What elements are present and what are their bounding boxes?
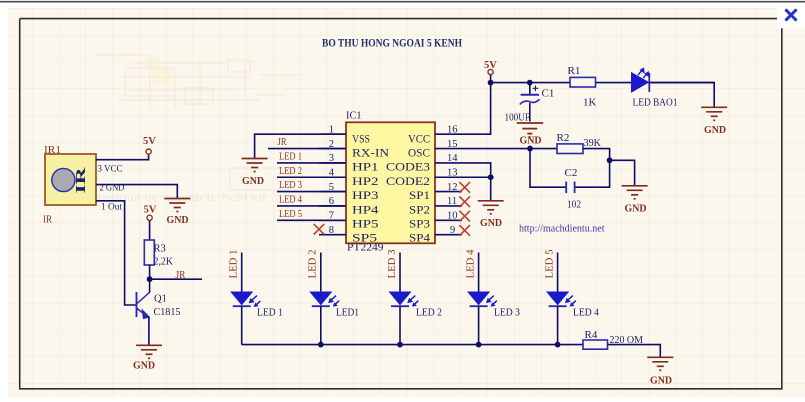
svg-text:LED 2: LED 2: [307, 250, 319, 279]
wire LED4 to bus: [478, 306, 480, 344]
svg-text:LED 3: LED 3: [279, 180, 302, 191]
svg-text:LED 4: LED 4: [464, 249, 476, 278]
wire C1 to ground: [529, 103, 531, 122]
ground (CODE2/3): [478, 201, 504, 214]
wire net LED 5 to pin7: [277, 219, 346, 221]
svg-text:LED 4: LED 4: [573, 307, 599, 319]
svg-text:102: 102: [567, 199, 581, 211]
diode LED 1: [231, 292, 283, 319]
svg-text:RX-IN: RX-IN: [352, 146, 389, 160]
IC pin names left: [352, 131, 389, 244]
svg-text:C1: C1: [542, 88, 555, 100]
capacitor C2 102: [565, 167, 582, 211]
LED BAO1: [632, 69, 678, 109]
svg-text:SP2: SP2: [409, 202, 430, 216]
svg-text:Q1: Q1: [154, 294, 167, 305]
wire LED3 to bus: [399, 306, 401, 344]
wire net LED 1 to pin3: [277, 162, 346, 164]
svg-text:LED 3: LED 3: [494, 307, 520, 319]
svg-text:HP1: HP1: [352, 160, 379, 174]
svg-text:C2: C2: [565, 167, 578, 179]
white notch top-right: [777, 3, 805, 29]
svg-text:10: 10: [447, 211, 458, 222]
wire LED3 column: [399, 253, 401, 293]
svg-text:C1815: C1815: [154, 307, 181, 318]
wire power rail: [491, 82, 715, 84]
wire LED4 column: [478, 253, 480, 293]
svg-text:11: 11: [447, 196, 457, 207]
svg-text:13: 13: [447, 168, 458, 179]
svg-text:3 VCC: 3 VCC: [98, 165, 123, 175]
wire JR stub: [150, 278, 202, 280]
wire net JR to pin2: [268, 148, 346, 150]
resistor R4: [583, 340, 608, 349]
svg-text:1K: 1K: [583, 97, 597, 109]
svg-text:LED 1: LED 1: [228, 250, 240, 279]
wire pin13 CODE2 to gnd branch: [462, 176, 491, 178]
svg-text:GND: GND: [480, 218, 502, 229]
svg-text:16: 16: [447, 125, 458, 136]
wire net LED 2 to pin4: [277, 176, 346, 178]
svg-text:BO THU HONG NGOAI 5 KENH: BO THU HONG NGOAI 5 KENH: [322, 36, 463, 50]
svg-text:12: 12: [447, 182, 458, 193]
ground (LED BAO1): [701, 107, 727, 120]
svg-text:LED 3: LED 3: [386, 249, 398, 278]
svg-text:GND: GND: [520, 136, 542, 147]
top edge line: [0, 1, 805, 3]
svg-text:JR: JR: [176, 270, 186, 281]
svg-text:SP4: SP4: [409, 231, 430, 245]
wire IR pin2 to GND: [96, 185, 177, 198]
svg-text:CODE3: CODE3: [386, 160, 430, 174]
wire LED to ground: [649, 83, 714, 107]
svg-text:IC1: IC1: [346, 110, 362, 122]
wire R2 right to C2 right branch: [575, 149, 610, 188]
svg-text:CODE2: CODE2: [386, 174, 430, 188]
svg-text:scmt: scmt: [330, 9, 343, 17]
resistor R2: [557, 144, 583, 154]
svg-text:LED 1: LED 1: [279, 151, 302, 162]
node CODE2 junction: [488, 174, 494, 180]
wire OSC node down to C2: [530, 149, 566, 188]
wire LED5 column: [557, 253, 559, 293]
svg-text:SP3: SP3: [409, 217, 430, 231]
svg-text:JR: JR: [278, 137, 287, 148]
wire 5V to R3: [149, 221, 151, 241]
svg-text:IR: IR: [43, 215, 52, 226]
diode LED 3: [468, 292, 520, 319]
ground (C2/R2): [622, 186, 648, 199]
node bus/LED5: [555, 342, 561, 348]
capacitor C1 100UF: [505, 83, 555, 124]
svg-text:15: 15: [447, 139, 458, 150]
node junction R3/JR: [147, 276, 153, 282]
svg-text:LED BAO1: LED BAO1: [633, 97, 678, 109]
node R2/C2/GND junction: [607, 157, 613, 163]
wire R3 to junction: [149, 265, 151, 293]
IC pin names right: [386, 131, 430, 244]
wire pin14 CODE3 to gnd branch: [462, 163, 491, 200]
svg-text:LED 5: LED 5: [279, 209, 302, 220]
transistor Q1 C1815: [137, 292, 150, 319]
svg-text:2,2K: 2,2K: [154, 257, 174, 268]
wire bottom bus: [242, 344, 583, 346]
no-connect X pin8: [314, 224, 325, 235]
ground (IR GND): [164, 199, 190, 212]
node bus/LED2: [318, 342, 324, 348]
ground (R4): [647, 357, 673, 370]
power 5V (main rail): [484, 60, 497, 75]
svg-text:LED 4: LED 4: [279, 194, 303, 205]
svg-text:GND: GND: [133, 361, 155, 372]
power 5V (R3 top): [144, 205, 157, 221]
ground (Q1 emitter): [136, 345, 162, 358]
no-connect X pin9: [459, 225, 470, 236]
svg-text:LED 2: LED 2: [416, 307, 442, 319]
node bus/LED4: [476, 342, 482, 348]
node OSC junction: [527, 146, 533, 152]
svg-text:1 Out: 1 Out: [101, 203, 122, 213]
no-connect X pin10: [459, 211, 470, 222]
wire IR pin3 to 5V: [96, 154, 149, 160]
close X button: [787, 11, 796, 20]
svg-text:SP5: SP5: [352, 231, 377, 245]
diode LED 2: [390, 292, 443, 319]
wire junction to ground: [610, 160, 635, 185]
wire LED5 to bus: [557, 306, 559, 344]
wire rail down to pin16 VCC: [462, 83, 491, 135]
ground (C1): [517, 123, 543, 137]
resistor R1: [570, 77, 596, 87]
ground (VSS): [242, 159, 268, 172]
node bus/LED3: [397, 342, 403, 348]
node rail/C1 junction: [527, 80, 533, 86]
svg-text:IR1: IR1: [44, 145, 61, 156]
svg-text:GND: GND: [242, 176, 264, 187]
wire net LED 3 to pin5: [277, 191, 346, 193]
wire LED1 column: [241, 253, 243, 293]
node rail/VCC junction: [488, 80, 494, 86]
svg-text:HP5: HP5: [352, 217, 379, 231]
pin numbers left: [329, 125, 335, 237]
wire IR pin1 Out down to Q1 base: [96, 201, 136, 305]
IC left pin lines 1-8: [319, 134, 346, 234]
svg-text:R1: R1: [568, 65, 581, 77]
pin numbers right: [447, 125, 458, 237]
svg-text:http://machdientu.net: http://machdientu.net: [519, 224, 605, 235]
svg-text:R3: R3: [154, 244, 166, 255]
svg-text:LED1: LED1: [336, 307, 359, 319]
IC right pin lines 16-9: [435, 134, 462, 234]
svg-text:GND: GND: [625, 204, 647, 215]
svg-text:HP4: HP4: [352, 202, 379, 216]
svg-text:R4: R4: [585, 329, 598, 341]
svg-text:OSC: OSC: [408, 146, 430, 160]
svg-text:HP3: HP3: [352, 188, 379, 202]
wire 5V stem to rail: [490, 75, 492, 83]
svg-text:100UF: 100UF: [505, 112, 531, 124]
svg-text:VCC: VCC: [408, 131, 430, 145]
IR receiver IR1: [45, 154, 96, 205]
wire net LED 4 to pin6: [277, 205, 346, 207]
resistor R3: [144, 240, 154, 265]
svg-text:LED 1: LED 1: [257, 307, 283, 319]
diode LED1: [310, 292, 359, 319]
wire pin1 VSS to ground: [255, 134, 346, 158]
power 5V (IR VCC): [143, 136, 156, 154]
svg-text:8: 8: [329, 225, 334, 236]
wire LED2 to bus: [320, 306, 322, 344]
diode LED 4: [547, 292, 599, 319]
wire Q1 emitter to ground: [148, 317, 150, 345]
svg-text:HP2: HP2: [352, 174, 379, 188]
svg-text:LED 5: LED 5: [543, 249, 555, 278]
no-connect X pin11: [459, 196, 470, 207]
svg-text:GND: GND: [704, 125, 726, 136]
wire OSC node to R2: [530, 148, 557, 150]
svg-text:9: 9: [450, 225, 455, 236]
ghost underlay: [66, 9, 343, 204]
svg-text:GND: GND: [650, 376, 672, 387]
svg-text:14: 14: [447, 153, 458, 164]
svg-text:IR: IR: [74, 166, 89, 193]
svg-text:39K: 39K: [584, 137, 602, 149]
svg-text:R2: R2: [557, 132, 570, 144]
wire LED2 column: [320, 253, 322, 293]
svg-text:LED 2: LED 2: [279, 166, 302, 177]
op IC1 PT2249: [346, 122, 435, 243]
svg-text:GND: GND: [167, 215, 189, 226]
no-connect X pin12: [459, 182, 470, 193]
wire pin15 OSC to R2 node: [462, 148, 530, 150]
wire LED1 to bus: [241, 306, 243, 344]
svg-text:SP1: SP1: [409, 188, 430, 202]
wire R4 to ground: [608, 345, 661, 357]
svg-text:5V: 5V: [143, 136, 156, 147]
svg-text:VSS: VSS: [352, 131, 370, 145]
svg-text:5V: 5V: [144, 205, 157, 216]
